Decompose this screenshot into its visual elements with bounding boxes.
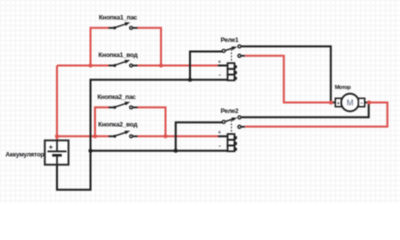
- wire row Knopka2_vod right segment (to relay2 coil+): [137, 135, 218, 137]
- node relay2 pivot branch junction: [174, 149, 178, 153]
- relay coil K2 winding: [228, 134, 237, 151]
- wire relay2 coil+ pin: [218, 135, 228, 137]
- svg-text:Кнопка2_вод: Кнопка2_вод: [98, 122, 137, 129]
- wire branch up to relay1 pivot: [190, 52, 222, 80]
- wire relay1 lower contact to motor left node: [245, 56, 331, 103]
- wire row Knopka1_vod left segment (battery+ to switch): [57, 65, 109, 67]
- switch Knopka2_pas left pin: [109, 106, 114, 108]
- relay K2 lever arm: [226, 119, 235, 122]
- svg-text:+: +: [218, 59, 221, 65]
- wire battery+ rising vertical: [56, 66, 58, 137]
- node motor right junction: [367, 101, 371, 105]
- node button2 loop left junction: [93, 134, 97, 138]
- svg-text:Мотор: Мотор: [335, 85, 352, 91]
- motor M1 right pin: [365, 102, 369, 104]
- svg-text:M: M: [347, 99, 354, 108]
- node button1 loop left junction: [89, 64, 93, 68]
- wire button2_pas loop left: [95, 107, 109, 136]
- switch Knopka1_pas left terminal dot: [113, 26, 116, 29]
- relay coil K1 winding: [228, 63, 237, 80]
- motor M1 body circle: [341, 94, 359, 112]
- node ground riser branch junction: [89, 149, 93, 153]
- wire button1_pas loop left (row1 left stub + left vertical): [91, 28, 110, 66]
- switch Knopka1_pas right pin: [133, 27, 138, 29]
- wire branch up to relay2 pivot: [176, 122, 223, 150]
- switch Knopka1_vod right terminal circle: [130, 64, 133, 67]
- node motor left junction: [329, 101, 333, 105]
- switch Knopka2_vod right terminal circle: [130, 135, 133, 138]
- switch Knopka2_pas right terminal circle: [130, 106, 133, 109]
- battery G1 box: [45, 140, 69, 164]
- svg-text:Кнопка1_пас: Кнопка1_пас: [99, 14, 138, 21]
- relay K1 lower contact pin: [241, 55, 245, 57]
- switch Knopka1_vod lever: [115, 61, 127, 65]
- switch Knopka1_vod right pin: [133, 65, 138, 67]
- svg-text:Аккумулятор: Аккумулятор: [6, 151, 45, 158]
- relay K1 actuating dashed link: [231, 49, 233, 63]
- relay K2 common pivot circle: [222, 120, 225, 123]
- svg-text:Реле2: Реле2: [221, 108, 239, 115]
- relay K1 common pivot circle: [222, 49, 225, 52]
- switch Knopka1_vod left pin: [109, 65, 114, 67]
- node button2 loop right junction: [164, 134, 168, 138]
- switch Knopka1_vod left terminal dot: [113, 64, 116, 67]
- switch Knopka1_pas lever: [115, 24, 127, 28]
- switch Knopka2_vod right pin: [133, 135, 138, 137]
- switch Knopka2_vod left terminal dot: [113, 135, 116, 138]
- relay K2 actuating dashed link: [231, 120, 233, 134]
- switch Knopka2_pas left terminal dot: [113, 106, 116, 109]
- relay K1 upper contact circle: [238, 45, 241, 48]
- wire relay1 upper contact to motor left node: [241, 46, 331, 101]
- relay K2 lower contact pin: [241, 126, 245, 128]
- battery G1 bottom lead: [56, 155, 58, 164]
- battery G1 top lead: [56, 140, 58, 151]
- wire row Knopka1_vod right segment (switch to relay1 coil+): [137, 65, 218, 67]
- wire button1_pas loop right (row1 right stub + right vertical): [137, 28, 161, 66]
- svg-text:-: -: [219, 143, 221, 150]
- wire relay1 coil+ pin: [218, 65, 228, 67]
- svg-text:+: +: [337, 101, 340, 107]
- svg-text:Кнопка2_пас: Кнопка2_пас: [97, 94, 136, 101]
- svg-text:Реле1: Реле1: [221, 37, 239, 44]
- motor M1 left brush terminal: [335, 98, 341, 106]
- node relay1 pivot branch junction: [188, 78, 192, 82]
- relay K2 upper contact circle: [238, 116, 241, 119]
- relay K1 lever arm: [226, 48, 235, 51]
- svg-text:+: +: [49, 142, 54, 151]
- node button1 loop right junction: [159, 64, 163, 68]
- wire motor right node around to relay2 lower contact: [245, 103, 388, 127]
- wire relay2 upper contact to motor right node: [241, 103, 369, 117]
- switch Knopka2_pas right pin: [133, 106, 138, 108]
- battery G1 minus plate: [52, 154, 62, 157]
- wire button2_pas loop right: [137, 107, 166, 136]
- relay K2 lower contact circle: [238, 125, 241, 128]
- motor M1 right brush terminal: [358, 98, 364, 106]
- wire ground branch to relay2 coil-: [91, 150, 228, 152]
- node battery+ / knopka2 row junction: [55, 134, 59, 138]
- motor M1 left pin: [331, 102, 335, 104]
- svg-text:Кнопка1_вод: Кнопка1_вод: [98, 52, 137, 59]
- wire battery+ stub into battery box: [56, 136, 58, 140]
- svg-text:+: +: [218, 130, 221, 136]
- switch Knopka2_vod left pin: [109, 135, 114, 137]
- svg-text:-: -: [360, 100, 362, 107]
- relay K1 lower contact circle: [238, 54, 241, 57]
- switch Knopka1_pas left pin: [109, 27, 114, 29]
- switch Knopka2_pas lever: [115, 103, 127, 107]
- svg-text:-: -: [219, 72, 221, 79]
- battery G1 plus plate: [48, 150, 67, 152]
- wire battery- down, along bottom, up left riser to relay1 coil-: [57, 80, 228, 190]
- wire row Knopka2_vod left segment: [57, 135, 109, 137]
- switch Knopka2_vod lever: [115, 132, 127, 136]
- switch Knopka1_pas right terminal circle: [130, 27, 133, 30]
